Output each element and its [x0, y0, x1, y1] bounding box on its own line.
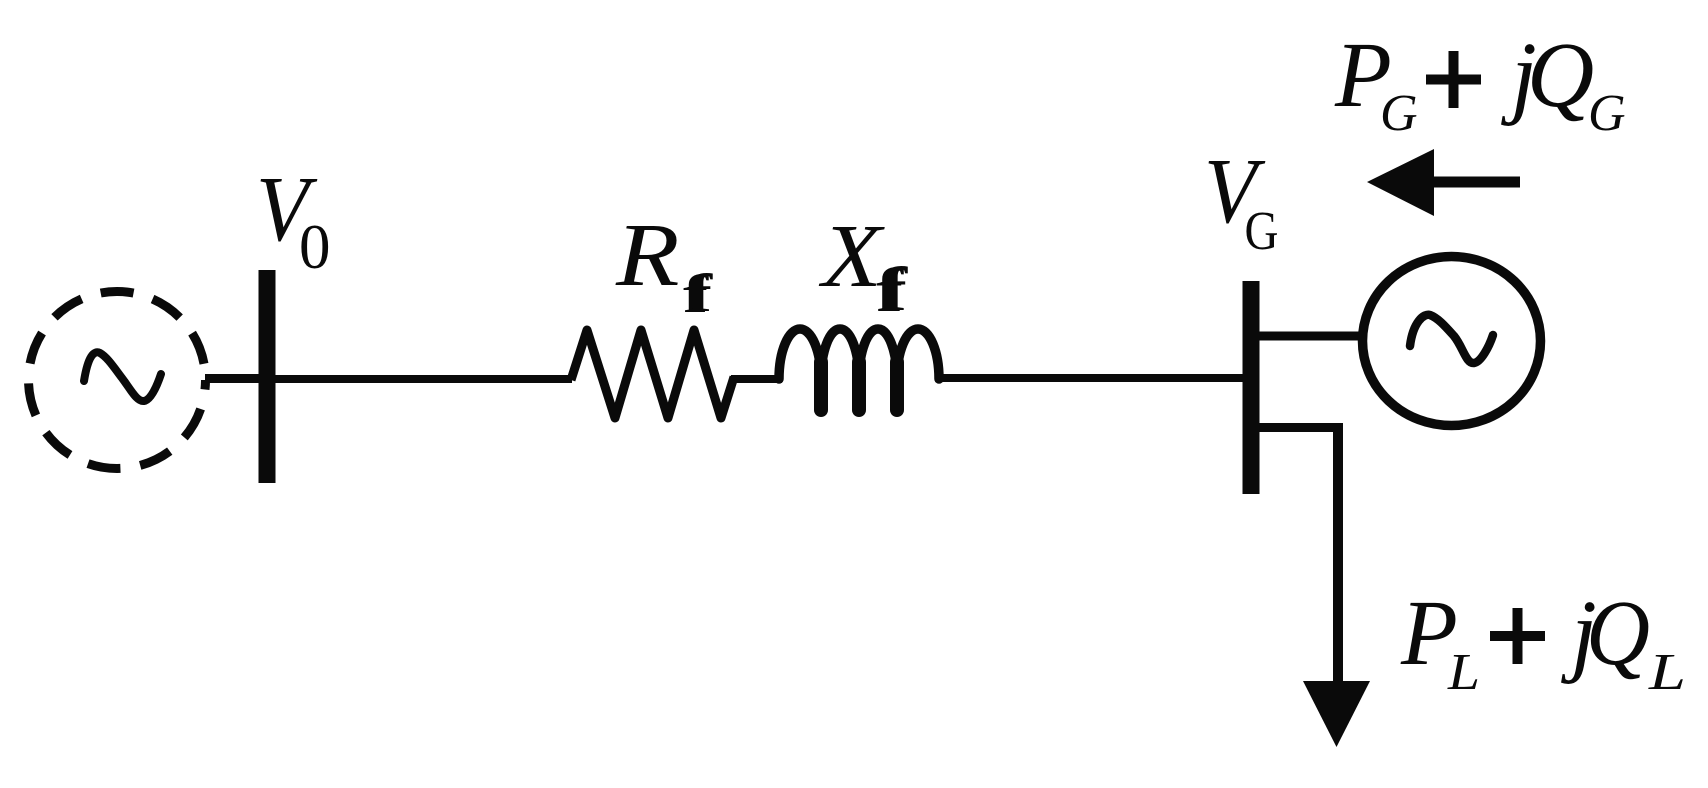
svg-text:X: X	[819, 207, 885, 306]
label Xf	[819, 207, 909, 325]
label PG + jQG	[1334, 24, 1626, 142]
svg-text:f: f	[880, 256, 909, 324]
bus VG	[1243, 281, 1260, 494]
sine symbol of G1	[1410, 315, 1493, 363]
svg-text:L: L	[1447, 644, 1480, 701]
svg-text:f: f	[687, 263, 713, 323]
generator G1 (AC machine circle)	[1363, 257, 1541, 426]
label VG	[1204, 140, 1279, 261]
bus V0	[259, 270, 276, 483]
svg-text:L: L	[1648, 644, 1686, 701]
svg-text:G: G	[1588, 85, 1626, 142]
sine symbol of S1	[84, 352, 161, 401]
label PL + jQL	[1400, 582, 1686, 701]
svg-text:R: R	[615, 206, 680, 305]
inductor Xf (coil)	[779, 329, 939, 410]
wire bus V0 to resistor Rf	[275, 375, 572, 383]
svg-text:Q: Q	[1586, 582, 1650, 685]
load branch wire (bus VG down to load)	[1258, 423, 1343, 684]
wire resistor to inductor	[731, 375, 782, 383]
svg-text:G: G	[1245, 200, 1279, 261]
arrow PG (generator power flow, pointing left)	[1367, 149, 1520, 216]
load arrow PL (downward arrowhead)	[1303, 681, 1370, 747]
svg-text:Q: Q	[1527, 24, 1594, 127]
svg-text:G: G	[1380, 85, 1418, 142]
svg-text:0: 0	[299, 212, 331, 282]
wire bus VG to generator G1	[1258, 332, 1362, 341]
source S1 (infinite bus source, dashed circle)	[29, 292, 206, 469]
wire S1 to bus V0	[205, 374, 262, 383]
resistor Rf	[571, 330, 734, 418]
label V0	[256, 158, 331, 282]
wire inductor to bus VG	[936, 374, 1243, 382]
label Rf	[615, 206, 714, 324]
